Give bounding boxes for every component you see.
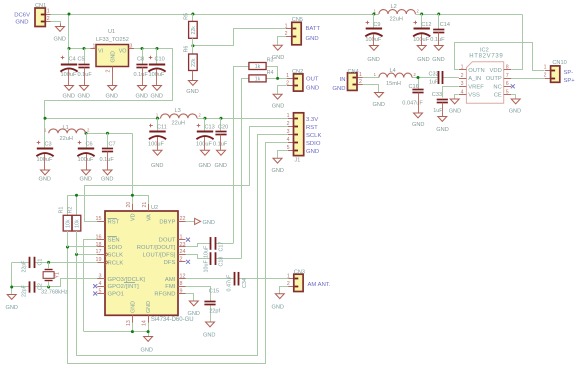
wire: U2 DBYP to gnd arrow	[186, 221, 195, 223]
svg-text:GND: GND	[131, 301, 137, 313]
connector CN10	[545, 70, 551, 72]
ground IC2 VSS	[454, 98, 456, 101]
no-connect U2 DOUT	[186, 238, 190, 242]
wire: R4 left to C18 top via x241.3	[242, 79, 249, 259]
svg-text:GND: GND	[432, 57, 444, 63]
svg-text:22pF: 22pF	[22, 285, 28, 297]
svg-text:FMI: FMI	[165, 284, 176, 290]
wire: U2 SDIO loop to J1 pin4	[68, 246, 98, 248]
capacitor C6 100uF	[86, 133, 88, 149]
svg-text:C33: C33	[432, 92, 442, 98]
connector CN3	[288, 278, 294, 280]
svg-text:U1: U1	[108, 29, 115, 35]
capacitor C10 100uF	[156, 49, 158, 65]
inductor L1 22uH	[49, 129, 86, 133]
svg-text:2: 2	[287, 121, 290, 127]
crystal Y1 32.768kHz	[48, 262, 50, 268]
svg-text:8: 8	[180, 281, 183, 287]
svg-text:GND: GND	[306, 36, 319, 42]
svg-text:15mH: 15mH	[386, 81, 401, 87]
svg-text:16: 16	[96, 234, 102, 240]
svg-text:1: 1	[461, 65, 464, 71]
svg-text:DOUT: DOUT	[159, 238, 176, 244]
wire: U2 LOUT jog to C18	[186, 255, 211, 259]
wire: R5/R6 junction to CN5 pin1	[193, 29, 287, 46]
ground C20	[220, 149, 222, 152]
svg-text:0.1uF: 0.1uF	[100, 157, 115, 163]
svg-text:C14: C14	[440, 22, 450, 28]
svg-text:22k: 22k	[191, 26, 197, 35]
svg-text:2: 2	[286, 81, 289, 87]
svg-text:GND: GND	[146, 301, 152, 313]
svg-text:R6: R6	[184, 46, 190, 53]
wire: CN4 pin2 to gnd	[363, 85, 379, 93]
capacitor C7 0.1uF	[107, 133, 109, 148]
ground CN1	[60, 24, 62, 27]
svg-text:RFGND: RFGND	[154, 292, 175, 298]
svg-text:SCLK: SCLK	[306, 133, 321, 139]
wire: R3 left to C17 top via x233.2	[234, 67, 249, 244]
capacitor C17 10uF	[210, 237, 212, 250]
svg-text:14: 14	[142, 320, 148, 326]
ground C15	[210, 321, 212, 324]
wire: R3 right jog down to R4 row	[267, 67, 278, 79]
wire: U2 FMI to C15	[186, 287, 211, 302]
capacitor C11 100uF	[157, 118, 159, 132]
wire: U1 VO row to down-corner x172.9	[134, 48, 173, 50]
svg-text:VD: VD	[131, 213, 137, 221]
junction dots	[68, 13, 71, 16]
svg-text:GND: GND	[272, 305, 284, 311]
wire: VO net down and left to L1 column	[45, 49, 173, 134]
svg-text:CE: CE	[494, 93, 502, 99]
svg-text:17: 17	[96, 249, 102, 255]
svg-text:1: 1	[359, 72, 362, 78]
U2 bottom pins GND GND	[132, 315, 134, 323]
wire: U2 SCLK loop to J1 pin3	[77, 254, 98, 256]
svg-text:IN: IN	[340, 77, 346, 83]
capacitor C2 22pF	[29, 281, 31, 292]
ground IC2 CE	[515, 98, 517, 101]
svg-text:DFS: DFS	[164, 260, 176, 266]
svg-text:R1: R1	[58, 207, 64, 214]
svg-text:GND: GND	[39, 177, 51, 183]
svg-text:GND: GND	[203, 220, 215, 226]
svg-text:OUT: OUT	[306, 77, 319, 83]
svg-text:6: 6	[506, 81, 509, 87]
svg-text:C18: C18	[219, 257, 225, 267]
wire: U2 SEN down to gnd rail	[84, 240, 98, 332]
svg-text:CN2: CN2	[292, 69, 303, 75]
svg-text:7: 7	[506, 73, 509, 79]
ground C33	[442, 115, 444, 118]
svg-text:GND: GND	[151, 163, 163, 169]
svg-text:C32: C32	[429, 72, 439, 78]
svg-text:C3: C3	[45, 142, 52, 148]
wire: R2 top lead	[76, 195, 78, 215]
ground C8	[142, 84, 144, 87]
svg-text:SP+: SP+	[564, 78, 576, 84]
capacitor C8 0.1uF	[142, 49, 144, 65]
svg-text:GND: GND	[436, 127, 448, 133]
svg-text:SDIO: SDIO	[306, 141, 321, 147]
svg-text:C12: C12	[421, 22, 431, 28]
svg-text:1: 1	[544, 65, 547, 71]
resistor R1 10k	[63, 215, 72, 231]
inductor L2 22uH	[379, 10, 416, 14]
svg-text:2: 2	[461, 73, 464, 79]
svg-text:GND: GND	[63, 94, 75, 100]
no-connect U2 GPO2	[93, 284, 97, 288]
ground C10	[156, 84, 158, 87]
svg-text:3: 3	[461, 81, 464, 87]
capacitor C5 0.1uF	[84, 49, 86, 65]
svg-text:VO: VO	[119, 49, 127, 55]
svg-text:GND: GND	[417, 57, 429, 63]
svg-text:SDIO: SDIO	[108, 245, 123, 251]
svg-text:0.47uF: 0.47uF	[227, 274, 233, 291]
svg-text:1: 1	[93, 44, 96, 50]
wire: U2 ROUT jog to C17	[186, 244, 211, 247]
svg-text:SCLK: SCLK	[108, 253, 124, 259]
svg-text:GND: GND	[509, 109, 521, 115]
svg-text:CN5: CN5	[292, 17, 303, 23]
svg-text:8: 8	[506, 65, 509, 71]
connector J1	[288, 118, 294, 120]
svg-text:GND: GND	[78, 94, 90, 100]
ground CN5	[277, 44, 279, 47]
svg-text:C7: C7	[109, 142, 116, 148]
svg-text:A_IN: A_IN	[468, 76, 481, 82]
svg-text:GND: GND	[272, 104, 284, 110]
ground C4	[68, 84, 70, 87]
svg-text:OUTN: OUTN	[468, 68, 484, 74]
svg-text:4: 4	[287, 137, 290, 143]
wire: R1 top lead	[67, 195, 69, 215]
svg-text:BATT: BATT	[306, 26, 321, 32]
ground C7	[107, 169, 109, 172]
ground C16	[418, 112, 420, 115]
svg-text:10k: 10k	[75, 219, 81, 228]
svg-text:GND: GND	[54, 37, 66, 43]
svg-text:VI: VI	[98, 49, 103, 55]
U2 right pins	[178, 221, 186, 223]
svg-text:R3: R3	[267, 58, 274, 64]
connector CN2	[287, 78, 294, 80]
capacitor C4 100uF	[68, 49, 70, 65]
svg-text:22pf: 22pf	[209, 309, 220, 315]
svg-text:22pF: 22pF	[22, 261, 28, 273]
svg-text:C9: C9	[373, 22, 380, 28]
wire: CN2 pin2 to gnd	[278, 86, 287, 94]
svg-text:3: 3	[99, 274, 102, 280]
svg-text:100uF: 100uF	[78, 157, 94, 163]
svg-text:GND: GND	[101, 177, 113, 183]
svg-text:10k: 10k	[66, 219, 72, 228]
svg-text:24: 24	[180, 249, 186, 255]
wire: L4 to C32 to IC2 A_IN	[412, 77, 438, 79]
svg-text:ROUT/[DOUT]: ROUT/[DOUT]	[137, 245, 176, 251]
svg-text:C34: C34	[242, 278, 248, 288]
svg-text:22: 22	[180, 216, 186, 222]
svg-text:GND: GND	[199, 163, 211, 169]
svg-text:GND: GND	[15, 20, 28, 26]
ground C6	[86, 169, 88, 172]
ic U2 Si4734	[105, 211, 178, 315]
svg-text:GND: GND	[80, 177, 92, 183]
svg-text:1: 1	[180, 234, 183, 240]
ground U1	[112, 84, 114, 87]
svg-text:GND: GND	[203, 333, 215, 339]
svg-text:5: 5	[506, 89, 509, 95]
wire: feed down x132.4 to VD rail	[132, 133, 134, 195]
svg-text:L2: L2	[391, 4, 397, 10]
ground C13	[204, 149, 206, 152]
inductor L3 22uH	[161, 114, 197, 118]
wire: IC2 CE to gnd	[512, 95, 516, 99]
svg-text:22uH: 22uH	[172, 121, 185, 127]
ground CN3	[279, 292, 281, 295]
connector CN1	[45, 14, 50, 16]
svg-text:100uF: 100uF	[148, 142, 164, 148]
regulator U1 LF33_TO252	[96, 45, 129, 67]
svg-text:10uF: 10uF	[203, 245, 209, 258]
svg-text:3: 3	[287, 129, 290, 135]
svg-text:2: 2	[47, 16, 50, 22]
svg-text:21: 21	[142, 202, 148, 208]
svg-text:15: 15	[96, 216, 102, 222]
svg-text:3.3V: 3.3V	[306, 117, 318, 123]
wire: VD/VA rail y195.3	[68, 196, 149, 204]
svg-text:VSS: VSS	[468, 93, 480, 99]
resistor R2 10k	[72, 215, 81, 231]
ground C9	[373, 45, 375, 46]
resistor R4 1k	[249, 75, 266, 82]
capacitor C20 0.1uF	[220, 118, 222, 131]
wire: U2 RCLK row to crystal	[49, 262, 98, 264]
svg-text:23: 23	[180, 242, 186, 248]
ground C12	[421, 45, 423, 46]
svg-text:OUTP: OUTP	[486, 76, 502, 82]
svg-text:1k: 1k	[255, 76, 261, 82]
svg-text:2: 2	[359, 79, 362, 85]
svg-text:22uH: 22uH	[60, 136, 73, 142]
wire: IC2 VSS to gnd	[455, 95, 459, 99]
U2 left pins	[97, 221, 105, 223]
ground C11	[157, 149, 159, 152]
svg-text:C1: C1	[38, 259, 44, 266]
svg-text:RCLK: RCLK	[108, 261, 124, 267]
ground RFGND	[193, 300, 195, 303]
svg-text:VDD: VDD	[490, 68, 502, 74]
ground CN4	[378, 91, 380, 94]
svg-text:3: 3	[130, 44, 133, 50]
resistor R3 1k	[249, 63, 266, 70]
svg-text:4: 4	[99, 281, 102, 287]
svg-text:CN1: CN1	[35, 3, 46, 9]
svg-text:22k: 22k	[191, 58, 197, 67]
svg-text:2: 2	[544, 72, 547, 78]
svg-text:LF33_TO252: LF33_TO252	[96, 37, 129, 43]
clock mark RCLK	[105, 260, 108, 265]
svg-text:9: 9	[180, 288, 183, 294]
svg-text:4: 4	[461, 89, 464, 95]
svg-text:5: 5	[99, 288, 102, 294]
svg-text:C15: C15	[209, 289, 219, 295]
wire: L1 row y133.3 to VD/VA feed	[86, 133, 133, 135]
wire: U2 GPO3/DCLK to crystal bottom	[49, 279, 98, 287]
svg-text:C8: C8	[137, 57, 144, 63]
ground C1 C2	[11, 293, 13, 296]
svg-text:DC6V: DC6V	[14, 13, 30, 19]
svg-text:22uH: 22uH	[390, 17, 403, 23]
svg-text:SEN: SEN	[108, 238, 120, 244]
wire: IC2 VREF to C33	[443, 87, 459, 98]
svg-text:GND: GND	[373, 102, 385, 108]
wire: C15 bottom to gnd	[210, 305, 212, 321]
ground J1	[277, 157, 279, 160]
wire: 3.3V rail y118.3 to J1 pin1	[45, 118, 161, 120]
svg-text:C17: C17	[219, 242, 225, 252]
svg-text:L3: L3	[175, 108, 181, 114]
svg-text:20: 20	[126, 202, 132, 208]
svg-text:1k: 1k	[255, 64, 261, 70]
svg-text:VREF: VREF	[468, 84, 484, 90]
wire: C18 right to R4 column	[215, 258, 241, 260]
svg-text:GND: GND	[215, 163, 227, 169]
svg-text:DBYP: DBYP	[159, 220, 175, 226]
svg-text:C10: C10	[155, 57, 165, 63]
capacitor C14 0.1uF	[438, 14, 440, 29]
svg-text:18: 18	[96, 242, 102, 248]
svg-text:GND: GND	[272, 55, 284, 61]
svg-text:Si4734-D60-GU: Si4734-D60-GU	[151, 317, 194, 323]
svg-text:1: 1	[285, 24, 288, 30]
svg-text:VA: VA	[147, 214, 153, 221]
connector CN5	[286, 28, 292, 30]
svg-text:13: 13	[126, 320, 132, 326]
capacitor C13 100uF	[204, 118, 206, 132]
wire: U2 RFGND to gnd	[186, 294, 194, 301]
no-connect U2 GPO1	[93, 292, 97, 296]
svg-text:AMI: AMI	[165, 277, 176, 283]
svg-text:GND: GND	[412, 122, 424, 128]
capacitor C12 100uF	[421, 14, 423, 29]
wire: DC6V rail y14 from CN1 to C14/VDD corner	[51, 14, 70, 16]
svg-text:GPO1: GPO1	[108, 292, 125, 298]
capacitor C34 0.47uF	[234, 272, 236, 286]
svg-text:2: 2	[106, 70, 112, 73]
svg-text:GND: GND	[141, 348, 153, 354]
wire: CN1 pin1 vertical down to U1 VI row	[68, 14, 70, 49]
ground C3	[44, 169, 46, 172]
no-connect IC2 pin6	[511, 84, 515, 88]
svg-text:C4: C4	[69, 57, 76, 63]
svg-text:5: 5	[287, 145, 290, 151]
wire: CN1 pin2 to gnd	[51, 22, 61, 24]
svg-text:L1: L1	[63, 125, 69, 131]
wire: C17 right to R3 column	[215, 243, 233, 245]
svg-text:GND: GND	[151, 94, 163, 100]
svg-text:0.1uF: 0.1uF	[134, 72, 149, 78]
svg-text:U2: U2	[151, 205, 158, 211]
wire: VDD down to IC2 pin8	[512, 15, 523, 70]
svg-text:AM ANT.: AM ANT.	[308, 282, 331, 288]
wire: C16 hang from L4 output	[418, 78, 420, 90]
wire: C1 row	[34, 262, 48, 264]
capacitor C9 100uF	[373, 14, 375, 29]
svg-text:R2: R2	[67, 207, 73, 214]
ground CN2	[277, 93, 279, 96]
ground C14	[438, 45, 440, 46]
svg-text:1uF: 1uF	[429, 80, 439, 86]
svg-text:C13: C13	[205, 125, 215, 131]
svg-text:GND: GND	[188, 311, 200, 317]
svg-text:NC: NC	[493, 84, 501, 90]
op-amp IC2 HT82V739	[466, 62, 503, 104]
wire: IC2 OUTN loop to CN10 pin1	[455, 43, 545, 71]
wire: U1 VI row	[69, 48, 91, 50]
wire: IC2 OUTP to CN10 pin2	[511, 78, 545, 80]
svg-text:R4: R4	[267, 70, 274, 76]
resistor R6 22k	[192, 46, 194, 54]
svg-text:SP-: SP-	[564, 70, 574, 76]
ground R6	[192, 79, 194, 82]
capacitor C3 100uF	[44, 133, 46, 149]
svg-text:Y1: Y1	[55, 272, 61, 278]
svg-text:GND: GND	[449, 109, 461, 115]
svg-text:CN10: CN10	[552, 60, 566, 66]
wire: CN3 pin2 to gnd	[280, 287, 289, 294]
clock mark SCLK	[105, 252, 108, 257]
wire: crystal/C2 bottom row to C1 gnd column	[34, 286, 48, 288]
svg-text:GND: GND	[110, 51, 116, 63]
svg-text:GND: GND	[306, 149, 319, 155]
resistor R5 22k	[192, 14, 194, 21]
svg-text:CN4: CN4	[348, 69, 359, 75]
svg-text:GND: GND	[186, 89, 198, 95]
ground U2 pins 13 14	[148, 335, 150, 338]
svg-text:GPO3/[DCLK]: GPO3/[DCLK]	[108, 277, 146, 283]
svg-text:GPO2/[INT]: GPO2/[INT]	[108, 284, 140, 290]
wire: J1 pin5 to gnd	[278, 151, 289, 158]
U2 top pins VD VA	[132, 204, 134, 211]
wire: CN5 pin2 to gnd	[278, 37, 287, 45]
wire: U2 RST loop to J1 pin2	[85, 127, 289, 222]
svg-text:2: 2	[180, 257, 183, 263]
wire: U2 AMI row to CN3 pin1 with C34 inline	[186, 278, 235, 280]
svg-text:CN3: CN3	[294, 269, 305, 275]
svg-text:HT82V739: HT82V739	[469, 54, 503, 60]
inductor L4 15mH	[379, 73, 412, 77]
svg-text:32.768kHz: 32.768kHz	[41, 290, 68, 296]
capacitor C18 10uF	[210, 252, 212, 265]
svg-text:RST: RST	[108, 220, 120, 226]
svg-text:2: 2	[285, 31, 288, 37]
svg-text:2: 2	[287, 281, 290, 287]
svg-text:1: 1	[287, 113, 290, 119]
svg-text:C6: C6	[86, 142, 93, 148]
svg-text:1: 1	[287, 273, 290, 279]
svg-text:0.1uF: 0.1uF	[430, 37, 445, 43]
wire: R4 junction to CN2 pin1	[266, 78, 287, 80]
ground C5	[84, 84, 86, 87]
no-connect U2 DFS	[186, 260, 190, 264]
gnd arrow DBYP	[195, 218, 201, 224]
svg-text:GND: GND	[6, 305, 18, 311]
svg-text:GND: GND	[106, 94, 118, 100]
svg-text:1: 1	[47, 8, 50, 14]
